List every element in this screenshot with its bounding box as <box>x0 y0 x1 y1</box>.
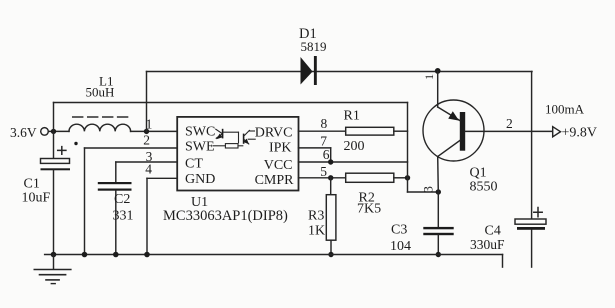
svg-text:C1: C1 <box>24 177 40 192</box>
svg-text:MC33063AP1(DIP8): MC33063AP1(DIP8) <box>163 208 288 224</box>
wire Vin up <box>53 103 55 132</box>
node D1 cathode junction <box>435 68 441 74</box>
node C3 bottom junction <box>436 252 441 257</box>
svg-text:SWC: SWC <box>185 125 215 140</box>
svg-text:8: 8 <box>321 116 328 131</box>
inductor L1 <box>69 74 131 132</box>
node pin 5 junction <box>328 175 333 180</box>
output arrow <box>553 127 561 137</box>
wire right rail to Q1 collector <box>408 191 439 193</box>
wire pin 2 SWE <box>85 147 178 149</box>
svg-text:R3: R3 <box>308 208 324 223</box>
node Vin junction <box>51 129 56 134</box>
svg-text:SWE: SWE <box>185 139 215 154</box>
wire pin 8 DRVC to R1 <box>299 130 346 132</box>
svg-text:CMPR: CMPR <box>255 173 295 188</box>
svg-text:4: 4 <box>145 162 152 177</box>
wire R1 to right rail <box>394 130 408 132</box>
svg-text:104: 104 <box>390 239 411 254</box>
wire pin 7 down to pin 6 <box>330 148 332 162</box>
node C2 ground junction <box>113 252 119 258</box>
svg-text:100mA: 100mA <box>545 102 585 117</box>
ground <box>34 255 71 284</box>
wire R2 to right rail <box>394 177 408 179</box>
diode D1 <box>299 26 327 85</box>
svg-text:C3: C3 <box>391 223 407 238</box>
wire pin 5 CMPR to R2 <box>299 177 346 179</box>
resistor R3 <box>308 178 336 255</box>
svg-text:331: 331 <box>113 209 134 224</box>
wire pin 2 down to ground rail <box>84 148 86 255</box>
svg-text:5819: 5819 <box>301 39 327 54</box>
wire ground rail end drop <box>502 255 504 268</box>
svg-text:2: 2 <box>143 133 150 148</box>
wire pin 4 down to ground rail <box>146 178 148 254</box>
svg-text:7K5: 7K5 <box>357 201 381 216</box>
node collector junction <box>436 189 441 194</box>
svg-text:+9.8V: +9.8V <box>562 126 598 141</box>
wire pin 3 CT <box>116 161 177 163</box>
wire top output row <box>147 71 533 73</box>
wire input row <box>48 130 69 132</box>
svg-text:330uF: 330uF <box>470 237 505 252</box>
node pin 6 junction <box>328 159 333 164</box>
wire Vin top feedback rail <box>54 102 408 104</box>
wire pin 4 GND <box>147 177 177 179</box>
capacitor C3 <box>390 223 454 255</box>
IC internal transistor T1 <box>216 129 239 143</box>
svg-text:5: 5 <box>320 164 327 179</box>
svg-text:50uH: 50uH <box>86 85 115 100</box>
wire L1 to pin1 node <box>131 130 178 132</box>
node pin1 junction <box>144 129 149 134</box>
node GND pin ground junction <box>144 252 150 258</box>
svg-text:DRVC: DRVC <box>255 126 293 141</box>
node R2 right junction <box>405 175 410 180</box>
svg-text:1: 1 <box>146 117 153 132</box>
svg-text:3.6V: 3.6V <box>10 125 37 140</box>
svg-text:VCC: VCC <box>264 158 293 173</box>
svg-text:2: 2 <box>506 116 513 131</box>
svg-text:200: 200 <box>344 139 365 154</box>
wire right rail vertical <box>407 103 409 193</box>
input terminal 3.6V <box>10 125 48 140</box>
svg-text:8550: 8550 <box>470 180 498 195</box>
wire collector to C3 <box>437 192 439 227</box>
capacitor C1 <box>22 131 78 254</box>
node R3 bottom junction <box>328 252 333 257</box>
wire ground rail <box>45 254 503 256</box>
svg-text:10uF: 10uF <box>22 190 51 205</box>
capacitor C2 <box>98 162 134 255</box>
IC internal base resistor <box>213 144 243 148</box>
svg-text:6: 6 <box>323 147 330 162</box>
transistor Q1 <box>423 71 553 195</box>
svg-text:GND: GND <box>185 172 215 187</box>
IC internal transistor T2 <box>243 130 255 144</box>
resistor R2 <box>346 173 394 216</box>
svg-text:Q1: Q1 <box>470 166 487 181</box>
svg-text:C2: C2 <box>114 192 130 207</box>
node C1 ground junction <box>51 252 57 258</box>
wire pin 6 VCC to right rail <box>299 161 408 163</box>
resistor R1 <box>344 108 394 154</box>
svg-text:1: 1 <box>422 74 436 80</box>
svg-text:3: 3 <box>421 186 436 193</box>
IC U1 box <box>163 117 299 224</box>
svg-text:1K: 1K <box>308 224 325 239</box>
capacitor C4 <box>470 72 546 268</box>
node SWE ground junction <box>82 252 88 258</box>
wire pin 7 IPK <box>299 147 331 149</box>
svg-text:CT: CT <box>185 157 203 172</box>
svg-text:R1: R1 <box>344 108 360 123</box>
wire pin1 node up to top wire <box>146 72 148 132</box>
svg-text:IPK: IPK <box>269 141 292 156</box>
